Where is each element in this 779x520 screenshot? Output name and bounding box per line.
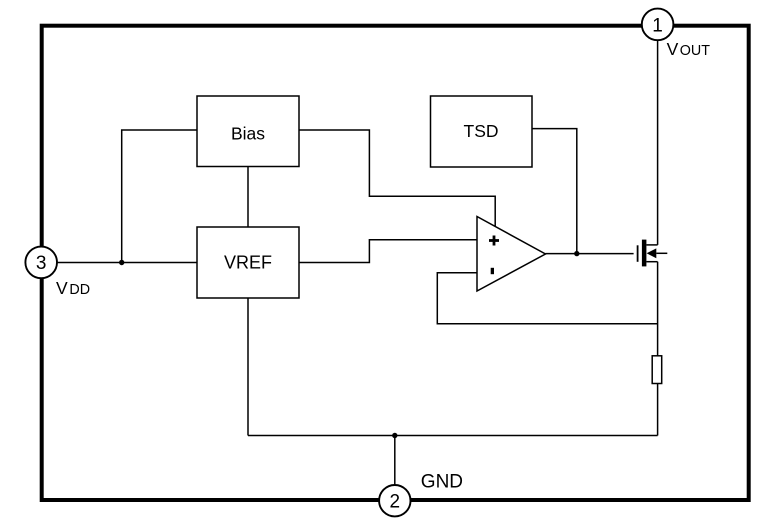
wire: GND junction to pin 2 [394, 436, 396, 486]
node: op-amp output junction dot [574, 251, 579, 256]
wire: pin 1 to MOSFET drain [657, 40, 659, 245]
wire: GND bus [248, 435, 658, 437]
block: TSD [431, 96, 533, 167]
wire: VREF to GND bus [247, 298, 249, 436]
svg-text:V: V [56, 278, 68, 298]
wire: resistor to GND bus [657, 384, 659, 436]
svg-text:TSD: TSD [464, 121, 499, 141]
wire: Bias to op-amp top [299, 130, 495, 227]
transistor Q1: drain lead [646, 244, 657, 246]
transistor Q1: bulk arrow [647, 248, 668, 258]
transistor Q1 pass MOSFET: gate bar [637, 245, 639, 261]
wire: Bias to VREF [247, 167, 249, 228]
transistor Q1: source lead [646, 261, 657, 263]
block: VREF [197, 227, 299, 298]
svg-text:OUT: OUT [680, 43, 710, 59]
net label VDD [56, 278, 90, 298]
wire: MOSFET source down to resistor [657, 262, 659, 356]
svg-text:VREF: VREF [224, 253, 272, 273]
wire: feedback from MOSFET source to op-amp - input [437, 273, 657, 324]
svg-text:Bias: Bias [231, 123, 265, 143]
op-amp U1 [477, 217, 546, 292]
resistor R1 [652, 356, 662, 384]
svg-text:3: 3 [36, 253, 47, 274]
op-amp - input symbol [491, 268, 494, 274]
svg-text:DD: DD [69, 282, 90, 298]
wire: VDD from pin 3 to VREF [57, 262, 197, 264]
op-amp + input symbol [489, 236, 499, 246]
svg-text:2: 2 [390, 491, 401, 512]
transistor Q1: channel bar [642, 240, 647, 267]
wire: VREF to op-amp + input [299, 240, 477, 263]
svg-text:1: 1 [652, 15, 663, 36]
node: GND junction dot [392, 433, 397, 438]
wire: VDD branch up to Bias [122, 130, 197, 263]
svg-text:V: V [667, 39, 679, 59]
wire: op-amp output to MOSFET gate [546, 253, 634, 255]
pin 1 circle [642, 9, 674, 41]
block: Bias [197, 96, 299, 167]
wire: TSD to op-amp output node [532, 129, 577, 254]
svg-text:GND: GND [421, 471, 463, 492]
pin 3 circle [25, 247, 57, 279]
net label VOUT [667, 39, 711, 59]
net label GND [421, 471, 463, 492]
node: VDD junction dot [119, 260, 124, 265]
pin 2 circle [379, 485, 410, 516]
